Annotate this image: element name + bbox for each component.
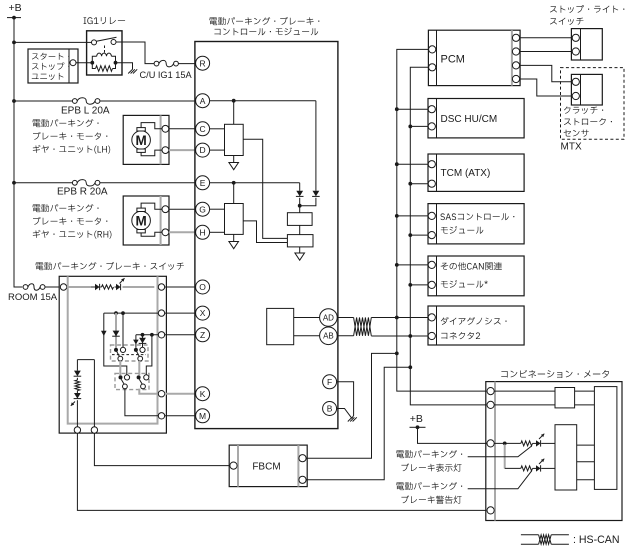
wire: CAN L bus (vertical) [408,67,428,369]
wire: transceiver to pin AD [294,317,320,319]
wire: pin H to driver RH [210,231,225,233]
switch terminal (to X) [158,310,164,316]
module regulator (small box) [287,206,312,226]
clutch stroke sensor label [564,106,612,136]
switch left terminal [60,284,66,290]
wire: lower gang to M terminal [125,389,158,416]
wire: pin B to ground [337,409,352,418]
combination meter box [486,382,622,521]
svg-text:D: D [200,145,206,155]
wire: switch to module pin K (grey) [165,393,196,395]
wire: +B vertical bus down left side [12,18,22,287]
EPB control module box [195,42,338,429]
combination meter label [501,370,609,378]
switch connector strips (grey) [67,276,159,423]
wire: switch left branch with arrow [101,313,127,375]
start/stop unit box [28,49,78,83]
ground (module B/F) [348,417,357,421]
PCM box [428,30,520,85]
module pin A [196,94,210,108]
relay IG1 link (dashed) [104,46,106,54]
EPB motor gear unit RH box [123,196,169,245]
wire: motor LH to module pin C [169,128,196,130]
wire: driver RH to output stage [243,221,287,243]
start/stop unit label [32,53,70,80]
MTX dashed box [561,68,625,140]
fuse C/U IG1 15A [140,60,193,80]
wire: CAN interface to meter MCU [575,391,595,405]
ground arrow (driver RH) [229,234,239,248]
ground arrow (driver LH) [229,156,239,170]
fuse ROOM 15A [8,284,58,303]
wire: CAN H branch to other CAN modules [397,264,428,266]
switch illumination row: wire, diode, resistor, LED [67,284,114,290]
module CAN transceiver (box) [267,308,294,344]
switch lower gang contacts [119,375,149,389]
twisted pair symbol (HS-CAN) [354,318,372,336]
module pin X [196,306,210,320]
module motor driver RH (box) [225,204,244,235]
motor M (RH) [132,208,151,233]
diode D1 (from E feed) [296,183,304,208]
relay IG1 coil and resistor [90,53,117,71]
wire: CAN L branch to other CAN modules [410,284,428,286]
wire: +B bus to EPB L fuse [14,100,72,102]
wire: motor LH internal to terminals [141,123,162,156]
wire: upper gang to lower gang (grey) [120,361,139,375]
clutch stroke sensor box [571,74,602,105]
wire: switch indicator return leg [93,360,95,427]
svg-text:EPB L 20A: EPB L 20A [61,106,110,117]
stop light switch label [550,5,624,25]
wire: switch to module pin X [165,312,196,314]
wire: CAN H to combination meter [397,353,487,391]
wire: switch to module pin O [165,286,196,288]
svg-text:O: O [199,282,206,292]
switch bottom terminals [74,427,97,433]
EPB indicator lamp circuit: resistor + LED [494,434,555,447]
wire: lamp driver to MCU [577,445,595,480]
wire: motor LH to module pin D (grey) [169,149,196,151]
motor RH terminals [162,206,169,236]
ground arrow (output stage) [295,247,305,260]
wire: EPB L fuse to module pin A [100,100,196,102]
switch terminal (to O) [158,284,164,290]
wire: motor RH to module pin G [169,208,196,210]
relay IG1 box [87,31,122,75]
svg-text:AD: AD [323,313,334,322]
wire: Z row right branch down to lower gang [146,335,152,375]
other CAN related modules box [428,256,524,296]
svg-text:AB: AB [323,332,334,341]
switch upper gang (dashed) [111,345,149,361]
module pin R [196,56,210,70]
wire: switch to module pin Z [165,334,196,336]
module pin K [196,387,210,401]
EPB warning lamp circuit: resistor + LED (grey feed) [505,444,555,471]
wire: driver LH to output stage [243,139,287,238]
module output stage (box) [287,225,313,247]
wire: switch to FBCM [94,433,229,465]
svg-text:R: R [200,58,206,68]
svg-text:F: F [327,377,332,387]
MTX label [561,142,582,153]
wire: X row to gang 1 fixed contact [120,313,125,352]
wire: pin D to driver LH [210,149,225,151]
svg-text:H: H [200,227,206,237]
diode D2 (from A feed) [300,101,320,206]
wire: CAN H branch to DSC [397,108,428,110]
meter lamp driver (box) [555,425,577,490]
node +B (battery feed, top left) [7,2,22,20]
switch release contact row (Z) [136,333,158,337]
module pin AD [320,309,338,327]
svg-text:C: C [200,124,206,134]
leader: warning lamp [468,471,532,489]
EPB motor gear unit LH box [123,115,169,164]
wire: relay coil to ground [116,63,133,70]
wire: start/stop unit to relay coil [76,62,92,64]
wire: switch to combination meter (warning line) [77,433,486,510]
FBCM box [229,445,307,487]
wire: CAN H to diagnosis connector [371,316,428,320]
module motor driver LH (box) [225,124,244,155]
wire: FBCM to CAN H [306,353,397,458]
module pin H [196,225,210,239]
module pin C [196,122,210,136]
module pin F [323,375,337,389]
svg-text:Z: Z [200,330,205,340]
wire: switch to module pin M [165,415,196,417]
module pin E [196,176,210,190]
EPB switch label [36,262,184,270]
motor M (LH) [132,128,151,153]
module pin Z [196,328,210,342]
TCM (ATX) box [428,154,524,191]
wire: CAN L branch to TCM [410,183,428,185]
wire: FBCM to CAN L [306,367,410,480]
svg-text:C/U IG1 15A: C/U IG1 15A [140,70,193,80]
wire: CAN H branch to SAS [397,215,428,217]
svg-text:FBCM: FBCM [252,462,280,473]
switch terminal (to K) [158,391,164,397]
module pin B [323,402,337,416]
module pin AB [320,327,338,345]
wire: CAN L to diagnosis connector [371,334,428,338]
EPB warning lamp label [396,482,462,504]
svg-text:PCM: PCM [441,54,465,66]
svg-text:DSC HU/CM: DSC HU/CM [441,114,498,125]
fuse EPB R 20A [57,180,108,198]
module pin G [196,202,210,216]
switch lower gang (dashed) [115,373,149,389]
wire: CAN H bus (vertical) [395,49,429,355]
stop light switch box [571,29,602,60]
svg-text:+B: +B [410,413,423,425]
motor LH terminals [162,125,169,153]
wire: CAN L to combination meter [410,367,487,405]
wire: pin F to ground [337,382,354,419]
meter terminals [487,388,494,515]
switch gang 1 pole feed (grey) with diode [112,313,120,352]
wire: EPB R fuse to module pin E [100,182,196,184]
wire: pin G to driver RH [210,208,225,210]
wire: fuse to module pin R [178,63,195,65]
EPB motor gear unit RH label [33,204,112,239]
svg-text:+B: +B [9,2,22,14]
SAS control module box [428,204,524,244]
wire: CAN L branch to DSC [410,125,428,127]
wire: Z row to gang 2 pole with diode [133,335,139,352]
switch indicator branch: diode, resistor, LED [71,360,95,427]
module pin M [196,409,210,423]
svg-text:M: M [199,411,206,421]
wire: PCM to clutch stroke sensor 1 [520,65,572,81]
svg-text:A: A [200,96,206,106]
EPB control module label [209,17,319,35]
wire: CAN H branch to TCM [397,163,428,165]
switch terminal (to M) [158,413,164,419]
wire: Z row to gang 2 fixed contact with diode [139,335,147,353]
DSC HU/CM box [428,99,524,138]
EPB switch box [59,276,166,433]
wire: motor RH internal to terminals [141,203,162,236]
svg-text:MTX: MTX [561,142,582,153]
leader: indicator lamp [468,446,532,457]
svg-text:M: M [135,133,146,148]
wire: motor RH to module pin H (grey) [169,231,196,233]
EPB motor gear unit LH label [33,119,111,154]
meter MCU (box) [594,387,617,490]
wire: AB to twisted pair [337,335,353,337]
wire: relay contact to C/U IG1 fuse [122,42,154,64]
svg-text:G: G [199,204,206,214]
switch gang link (dashed) [112,354,146,356]
wire: pin E internal feed [210,181,300,204]
wire: CAN L branch to SAS [410,234,428,236]
wire: pin C to driver LH [210,128,225,130]
svg-text:TCM (ATX): TCM (ATX) [441,168,491,179]
legend: twisted pair = HS-CAN [521,534,620,546]
svg-text:B: B [327,404,333,414]
relay IG1 contact [87,37,122,45]
wire: +B bus to IG1 relay contact [14,41,87,43]
wire: lower gang to K terminal (grey) [139,389,158,394]
svg-text:E: E [200,178,206,188]
switch upper gang levers [117,351,143,361]
ground (relay coil) [128,69,137,73]
wire: PCM to stop light switch 1 [520,37,572,39]
wire: pin A internal feed [210,99,316,125]
switch terminal (to Z) [158,332,164,338]
svg-text:X: X [200,308,206,318]
wire: transceiver to pin AB [294,335,320,337]
svg-text:M: M [135,214,146,229]
wire: PCM to stop light switch 2 [520,51,572,53]
LED (illumination) [115,278,155,290]
wire: +B bus to EPB R fuse [14,182,72,184]
node +B (meter feed) [410,413,426,429]
EPB indicator lamp label [396,450,462,472]
svg-text:K: K [200,389,206,399]
svg-text:EPB R 20A: EPB R 20A [57,187,108,198]
wire: +B to meter [418,427,487,443]
module pin O [196,280,210,294]
wire: AD to twisted pair [337,317,353,319]
switch apply contact row (X) [104,311,159,315]
wire: PCM to clutch stroke sensor 2 [520,79,572,96]
fuse EPB L 20A [61,98,110,117]
diagnosis connector 2 box [428,306,524,345]
meter CAN interface (box) [494,388,574,408]
wire: ROOM fuse to switch [45,286,60,288]
svg-text:ROOM 15A: ROOM 15A [8,292,58,303]
svg-text:: HS-CAN: : HS-CAN [573,534,620,546]
IG1 relay label [84,17,126,24]
module pin D [196,143,210,157]
